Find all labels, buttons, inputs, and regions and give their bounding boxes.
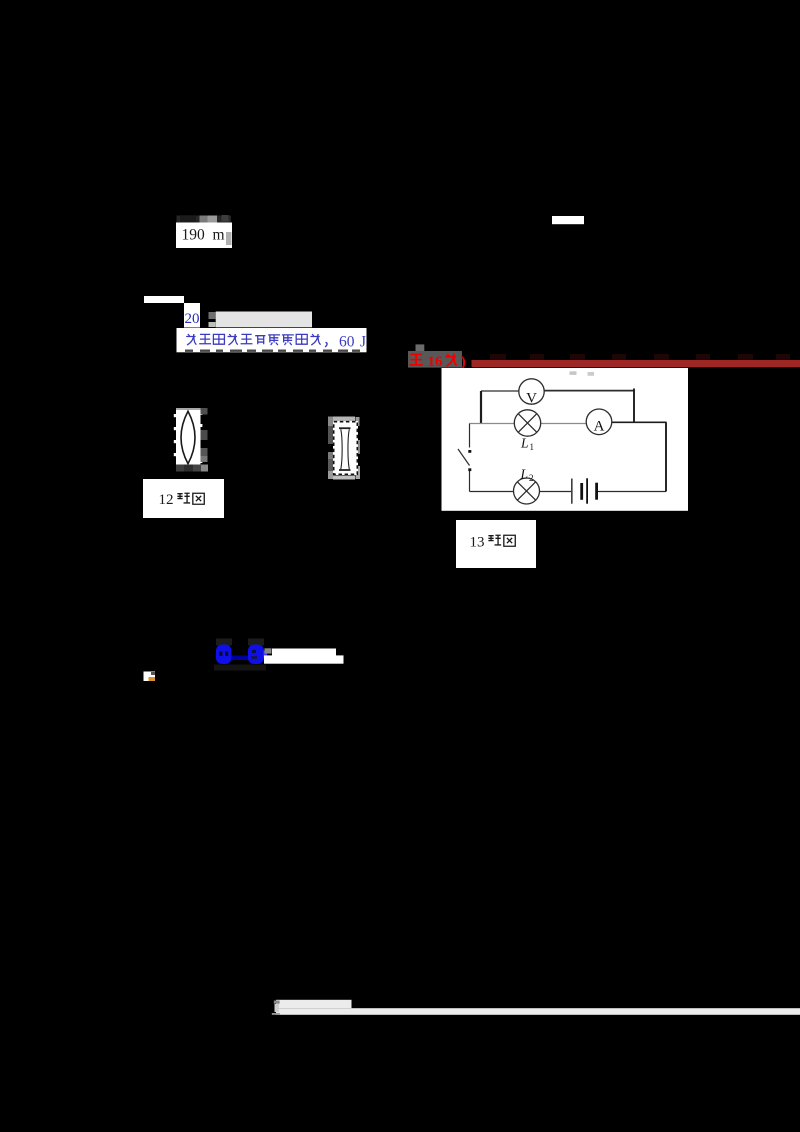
- svg-text:13: 13: [470, 535, 485, 551]
- svg-text:1: 1: [530, 442, 535, 452]
- svg-text:L: L: [520, 436, 529, 451]
- svg-text:m: m: [213, 227, 225, 244]
- svg-text:L: L: [520, 467, 529, 482]
- svg-text:190: 190: [182, 227, 206, 244]
- svg-text:A: A: [594, 419, 605, 435]
- svg-text:J: J: [360, 334, 366, 351]
- svg-text:60: 60: [339, 334, 355, 351]
- svg-text:V: V: [526, 391, 537, 407]
- svg-text:12: 12: [159, 492, 174, 508]
- svg-text:): ): [461, 354, 466, 371]
- svg-text:2: 2: [529, 473, 534, 483]
- svg-text:16: 16: [428, 354, 444, 370]
- svg-text:20: 20: [185, 311, 200, 327]
